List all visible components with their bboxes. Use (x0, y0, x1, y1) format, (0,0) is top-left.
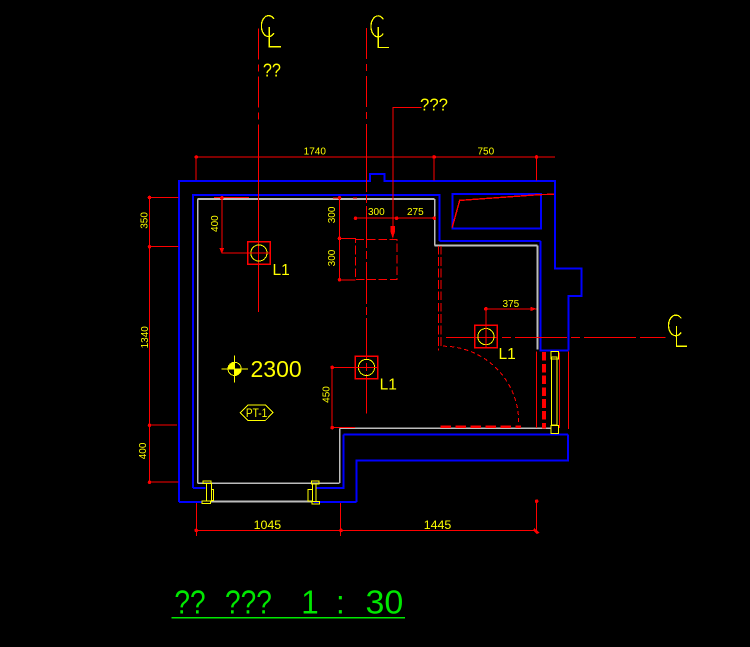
centerline CL1 vertical dashed upper (257, 28, 259, 150)
wall inner blue bottom left segment (193, 487, 206, 489)
bottom dim extension mid (340, 503, 342, 536)
svg-text:750: 750 (477, 146, 494, 157)
text ??? note (420, 94, 448, 115)
text dim 400 vertical left (138, 442, 149, 459)
recessed box red dashed square (356, 239, 397, 279)
bottom dimension line (1045/1445) (194, 528, 539, 534)
text L1 first (273, 262, 290, 279)
svg-text:???: ??? (225, 584, 272, 621)
text dim 375 (503, 299, 520, 310)
fixture L1-2 horizontal cross line (332, 366, 377, 368)
fixture L1-2 red square (355, 356, 377, 378)
svg-text:30: 30 (366, 585, 404, 621)
gray arch line main room right (434, 199, 436, 246)
text dim 300 horizontal (368, 207, 385, 218)
centerline CL2 vertical lower through fixture L1-2 (365, 150, 367, 414)
title text green ?? ??? (174, 584, 403, 622)
wall blue bottom-right band top edge (343, 433, 568, 435)
text ?? under CL1 (263, 60, 281, 81)
centerline symbol CL2 (371, 16, 389, 48)
left dim tick second (150, 246, 179, 248)
leader line to ??? note (391, 108, 422, 239)
svg-text:300: 300 (327, 249, 338, 266)
svg-text:2300: 2300 (251, 356, 302, 382)
door opening double dashed line left (438, 246, 440, 350)
svg-text:???: ??? (420, 94, 448, 115)
left dim tick bottom (150, 481, 179, 483)
fixture L1-1 horizontal cross line (222, 252, 270, 254)
svg-text:275: 275 (407, 207, 424, 218)
centerline CLh solid end segment (648, 336, 665, 338)
bottom dim extension left (195, 503, 197, 536)
text dim 450 vertical (321, 386, 332, 403)
text PT-1 (246, 407, 268, 420)
dimension extension mid top (433, 158, 435, 181)
gray arch line step vertical (339, 428, 341, 483)
text L1 third (499, 346, 516, 363)
svg-text:PT-1: PT-1 (246, 407, 268, 420)
sliding track yellow rectangle (552, 357, 558, 425)
svg-text:300: 300 (327, 206, 338, 223)
curtain red diagonal polyline (452, 194, 554, 227)
PT-1 finish tag bubble (240, 405, 273, 421)
gray arch line main room left (197, 199, 199, 483)
svg-text:1045: 1045 (254, 518, 282, 532)
curtain box blue rectangle (452, 194, 541, 229)
svg-text:1340: 1340 (140, 326, 151, 349)
window jamb bracket yellow right (308, 481, 319, 504)
wall inner blue bottom right segment (316, 434, 344, 488)
gray arch line right room top (435, 244, 538, 246)
window jamb bracket yellow left (202, 481, 214, 503)
text dim 350 vertical (139, 212, 150, 229)
text dim 750 (477, 146, 494, 157)
wall outer blue outline (top/left/right with notch and steps) (179, 174, 582, 502)
svg-text:450: 450 (321, 386, 332, 403)
wall door head blue segment (540, 350, 569, 352)
door frame red jamb line right (568, 352, 570, 429)
svg-text:??: ?? (263, 60, 281, 81)
text dim 1045 (254, 518, 282, 532)
left dim tick top (150, 197, 179, 199)
text dim 1340 vertical (140, 326, 151, 349)
centerline CLh horizontal dashed right side (446, 336, 665, 338)
left dim tick third (150, 424, 178, 426)
sliding track yellow bottom square (551, 426, 559, 434)
svg-text:L1: L1 (380, 377, 397, 394)
door opening double dashed line right (440, 246, 442, 347)
fixture L1-3 vertical cross line (485, 309, 487, 348)
bottom dim extension right (535, 499, 539, 533)
door panel thick red dashed bar (542, 352, 546, 429)
door swing arc dashed (443, 346, 519, 422)
svg-text:L1: L1 (499, 346, 516, 363)
centerline CL2 vertical dashed upper (365, 28, 367, 150)
gray window sill line at bottom opening (211, 501, 312, 503)
fixture L1-1 red square (248, 242, 270, 264)
text L1 second (380, 377, 397, 394)
door leaf thick dashed horizontal (441, 425, 521, 428)
svg-text:1: 1 (301, 584, 318, 621)
dimension 450 below fixture L1-2 (330, 366, 354, 430)
wall inner blue right room top (440, 240, 541, 242)
text dim 1445 (424, 518, 452, 532)
wall outer blue bottom mid segment (314, 501, 357, 503)
door frame red line mid (558, 352, 560, 428)
dimension line 300/275 (354, 216, 436, 220)
fixture L1-3 yellow circle (478, 329, 494, 345)
gray arch line right room right (536, 245, 538, 349)
svg-text:1740: 1740 (304, 146, 327, 157)
sliding track yellow top square (551, 352, 559, 359)
svg-text:??: ?? (174, 584, 205, 621)
gray arch line main room top (198, 198, 435, 200)
text dim 1740 (304, 146, 327, 157)
svg-text:400: 400 (138, 442, 149, 459)
centerline CL1 vertical solid lower through fixture L1-1 (257, 150, 259, 312)
text dim 300 vertical lower (327, 249, 338, 266)
fixture L1-2 yellow circle (358, 359, 374, 375)
svg-text:L1: L1 (273, 262, 290, 279)
fixture L1-3 red square (475, 325, 497, 347)
ceiling height target symbol (221, 356, 248, 383)
dimension extension right top (536, 158, 538, 181)
dimension tick at 300/300 top (333, 197, 357, 199)
gray arch line step top (340, 427, 552, 429)
text dim 400 vertical fixture (210, 215, 221, 232)
dimension extension left end top (195, 158, 197, 180)
svg-text::: : (336, 584, 345, 621)
dimension 375 fixture L1-3 (484, 307, 536, 311)
text 2300 ceiling height (251, 356, 302, 382)
wall inner blue main room (left/top/right) (193, 195, 440, 488)
svg-text:300: 300 (368, 207, 385, 218)
centerline symbol CL1 (261, 16, 281, 47)
dimension line top (1740/750) (194, 155, 555, 159)
dimension tick at 300/300 mid (340, 237, 357, 239)
wall inner blue right room right side (539, 241, 541, 350)
svg-text:375: 375 (503, 299, 520, 310)
svg-text:1445: 1445 (424, 518, 452, 532)
title underline green (172, 617, 406, 619)
left dimension chain line (350/1340/400) (148, 196, 152, 484)
door frame red jamb line left (536, 352, 538, 428)
svg-text:350: 350 (139, 212, 150, 229)
dimension 400 for fixture L1-1 (214, 196, 249, 254)
wall blue bottom-right band bottom edge (357, 434, 569, 502)
centerline symbol CLh right (669, 315, 688, 346)
gray arch line main room bottom (198, 482, 340, 484)
dimension tick at 300/300 bottom (340, 279, 356, 281)
text dim 275 (407, 207, 424, 218)
svg-text:400: 400 (210, 215, 221, 232)
dimension vertical line 300/300 (338, 196, 342, 282)
fixture L1-1 yellow circle (251, 245, 267, 261)
wall outer blue bottom left segment (179, 501, 202, 503)
text dim 300 vertical upper (327, 206, 338, 223)
